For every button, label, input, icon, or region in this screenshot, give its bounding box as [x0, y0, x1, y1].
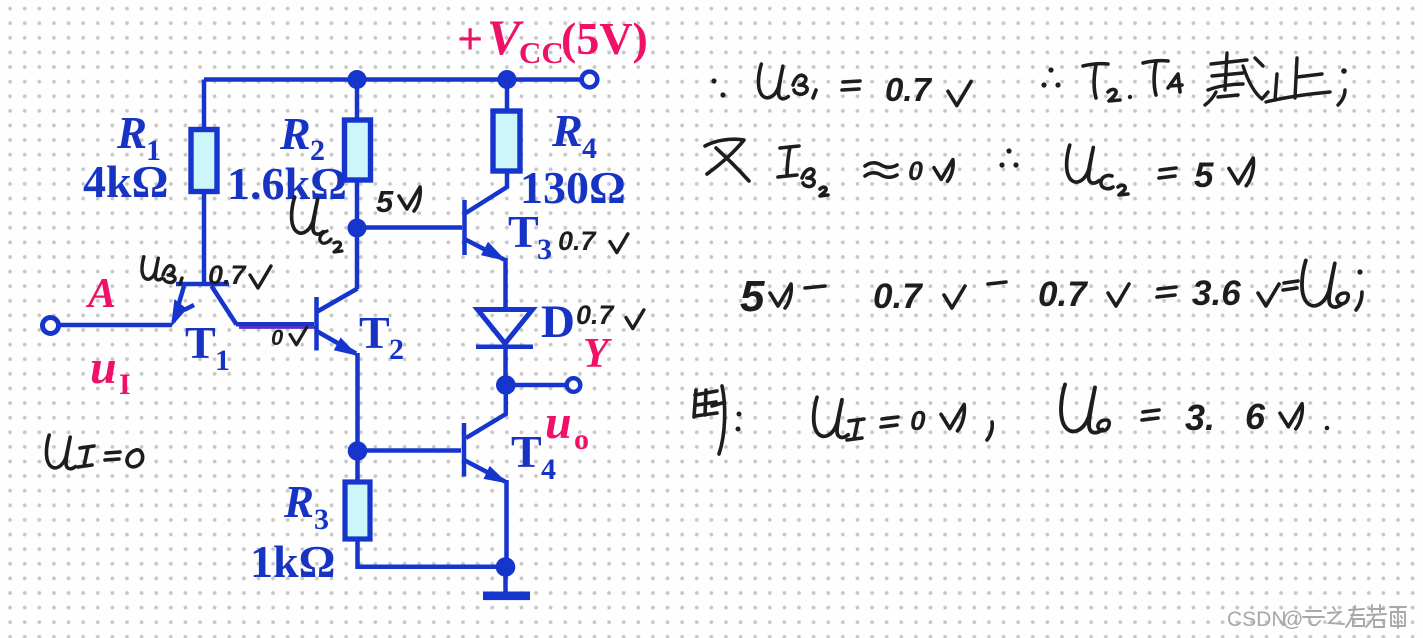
svg-text:I: I: [119, 368, 131, 401]
wire T3 emitter to diode: [503, 258, 508, 309]
svg-text:(5V): (5V): [561, 13, 648, 64]
svg-text:2: 2: [389, 333, 404, 366]
svg-text:R: R: [551, 105, 583, 156]
wire R2 bottom to node C2 and down to T2 collector: [355, 180, 360, 289]
wire R4 top: [505, 80, 510, 114]
watermark handle yunzhijunruoyu: [1303, 605, 1406, 628]
svg-text:0: 0: [271, 325, 284, 350]
svg-text:CC: CC: [519, 35, 564, 70]
diode D: [476, 310, 533, 347]
svg-text:+: +: [457, 13, 483, 64]
transistor T1 multi-emitter input: [171, 284, 237, 327]
annotation 0.7v at T1 base: [208, 260, 271, 290]
svg-text:Y: Y: [583, 331, 612, 377]
svg-text:1: 1: [215, 344, 230, 377]
transistor T2: [317, 289, 359, 357]
wire R2 top: [355, 80, 360, 123]
terminal input A open circle: [43, 318, 59, 334]
ground symbol: [483, 592, 530, 601]
svg-text:T: T: [508, 206, 539, 257]
svg-text:T: T: [185, 317, 216, 368]
wire purple ink overlay under T1-T2 wire: [239, 326, 315, 329]
resistor R1: [191, 130, 217, 192]
svg-text:0.7: 0.7: [576, 300, 616, 330]
wire T2 base from T1: [236, 322, 314, 327]
annotation 0.7v right of T3: [558, 226, 628, 256]
svg-text:3.6: 3.6: [1192, 274, 1241, 313]
terminal Y open circle: [567, 378, 581, 392]
svg-text:R: R: [116, 108, 147, 158]
wire R1 bottom to T1 base: [202, 191, 207, 284]
svg-text:3: 3: [314, 503, 329, 536]
svg-text:4: 4: [582, 132, 597, 165]
svg-text:@: @: [1282, 608, 1303, 631]
wire T2 emitter down through node to R3: [355, 353, 360, 484]
wire diode to node Y: [503, 344, 508, 390]
wire node Y to output terminal: [506, 383, 567, 388]
wire input A to T1 emitter: [58, 323, 172, 328]
svg-text:0.7: 0.7: [885, 71, 933, 108]
svg-text:A: A: [85, 271, 116, 317]
svg-text:T: T: [359, 307, 390, 358]
svg-text:u: u: [90, 341, 117, 394]
terminal VCC open circle: [582, 72, 598, 88]
wire node Y down to T4 collector: [466, 385, 506, 438]
wire R1 top: [202, 80, 207, 133]
node C2 junction: [348, 219, 367, 238]
annotation Uc2 at node C2: [292, 197, 342, 252]
handwritten line3: 5V - 0.7V - 0.7V = 3.6V = Uo: [740, 260, 1363, 321]
wire node to T4 base: [358, 448, 462, 453]
svg-text:3: 3: [537, 233, 552, 266]
handwritten cutoff char zhi: [1266, 58, 1330, 102]
svg-text:5: 5: [376, 184, 394, 219]
svg-text:T: T: [511, 426, 542, 477]
svg-text:D: D: [541, 296, 575, 348]
annotation 0v at T2 base: [271, 325, 307, 350]
transistor T3: [465, 200, 507, 261]
node ground junction: [496, 557, 516, 577]
annotation 0.7v right of D: [576, 300, 644, 330]
node Y junction: [496, 375, 516, 395]
svg-text:0.7: 0.7: [873, 277, 923, 316]
svg-text:4: 4: [541, 453, 556, 486]
handwritten line2: also IB2 approx 0V therefore UC2 = 5V: [705, 139, 1253, 196]
svg-text:0.7: 0.7: [208, 260, 248, 290]
transistor T4: [464, 423, 508, 484]
annotation UI=0 bottom left: [46, 435, 142, 469]
svg-text:u: u: [545, 396, 572, 449]
svg-text:5: 5: [740, 272, 765, 321]
svg-text:1.6kΩ: 1.6kΩ: [227, 158, 347, 209]
svg-text:1kΩ: 1kΩ: [250, 536, 335, 587]
svg-text:CSDN: CSDN: [1227, 608, 1287, 631]
annotation 5v at C2-T3 wire: [376, 184, 420, 219]
handwritten semicolon line1: [1338, 68, 1347, 105]
wire R4 bottom to T3 collector: [465, 171, 507, 214]
svg-text:6: 6: [1245, 396, 1266, 437]
svg-text:R: R: [283, 477, 314, 527]
resistor R2: [345, 120, 371, 180]
node junction rail-R4: [498, 70, 517, 89]
handwritten line4: so UI = 0V, Uo = 3.6V: [694, 385, 1329, 455]
svg-text:0: 0: [910, 405, 926, 436]
resistor R4: [493, 111, 520, 171]
svg-text:R: R: [279, 108, 311, 159]
wire ground stub: [503, 567, 508, 593]
svg-text:0.7: 0.7: [558, 226, 598, 256]
svg-text:0: 0: [908, 156, 923, 186]
wire node C2 to T3 base: [357, 225, 462, 230]
svg-text:o: o: [574, 423, 589, 456]
resistor R3: [345, 482, 370, 539]
wire R3 bottom to ground node: [358, 539, 506, 567]
svg-text:3.: 3.: [1185, 397, 1215, 438]
node T2emitter-R3-T4base junction: [348, 441, 368, 461]
node junction rail-R2: [348, 70, 367, 89]
wire T4 emitter down to ground node: [504, 480, 509, 567]
handwritten line1: because UB1 = 0.7V therefore T2 T4 cutoff: [711, 61, 1182, 108]
wire VCC rail: [204, 77, 588, 82]
svg-text:5: 5: [1194, 156, 1214, 195]
handwritten cutoff char jie: [1205, 53, 1268, 105]
svg-text:0.7: 0.7: [1038, 275, 1088, 314]
annotation UB1 above T1: [142, 257, 182, 284]
svg-text:4kΩ: 4kΩ: [83, 156, 168, 207]
